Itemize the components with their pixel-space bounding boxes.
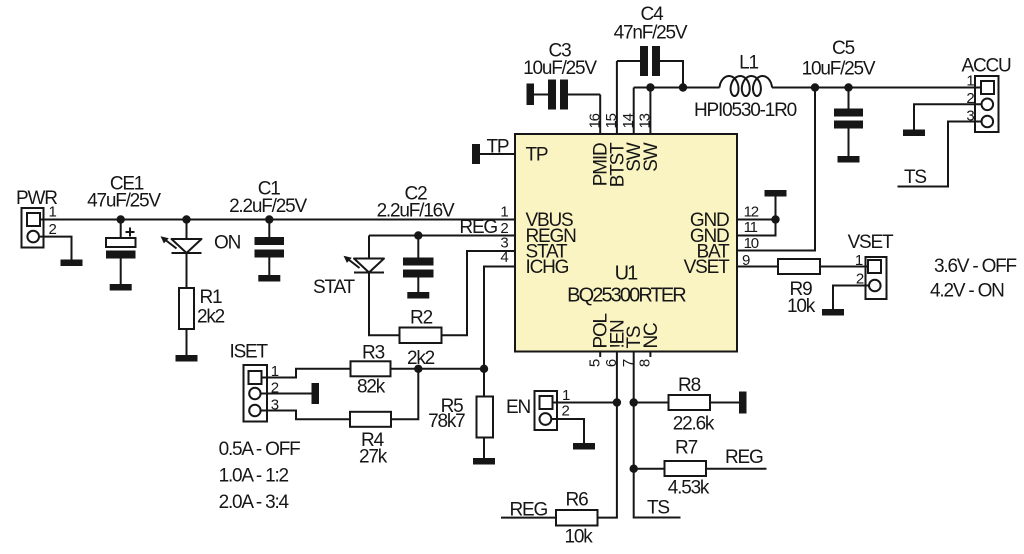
svg-text:4: 4 xyxy=(500,249,508,266)
termination bar at R8 xyxy=(739,392,747,414)
pin name PMID inside U1 xyxy=(591,143,612,186)
wire U1 pin 5 stub (POL) xyxy=(599,352,601,358)
resistor R7 4.53k xyxy=(634,437,710,498)
svg-text:8: 8 xyxy=(637,359,654,367)
ground at R1 xyxy=(176,355,198,362)
wire U1 pin 11 (GND) xyxy=(737,197,776,236)
wire EN pin 1 to !EN net xyxy=(553,402,617,404)
wire SW rail to L1 xyxy=(634,87,720,89)
pin name VBUS inside U1 xyxy=(526,210,573,231)
wire U1 pin 8 stub (NC) xyxy=(649,352,651,358)
wire EN pin 2 to ground xyxy=(551,419,584,443)
pin number 15 xyxy=(603,113,620,128)
svg-text:REG: REG xyxy=(725,447,763,468)
wire U1 pin 9 (VSET) to R9 xyxy=(737,266,778,268)
text 3.6V - OFF xyxy=(934,256,1017,277)
ground at C5 xyxy=(838,156,860,163)
wire ACCU pin 3 to TS net xyxy=(898,122,982,187)
node C5 junction xyxy=(844,83,852,91)
ground at CE1 xyxy=(110,284,132,291)
resistor R4 27k xyxy=(350,412,391,468)
capacitor C1 2.2uF/25V xyxy=(229,179,307,276)
ground at EN pin 2 xyxy=(573,443,595,450)
svg-text:U1: U1 xyxy=(615,263,639,285)
svg-text:R2: R2 xyxy=(410,308,433,329)
svg-text:NC: NC xyxy=(641,323,662,349)
node CE1 junction on VBUS rail xyxy=(117,215,125,223)
wire VBUS rail from PWR-1 to U1 pin 1 (VBUS net) xyxy=(40,219,515,221)
svg-text:2.0A - 3:4: 2.0A - 3:4 xyxy=(219,492,290,513)
wire BAT riser to U1 pin 10 xyxy=(737,88,815,251)
pin name BAT inside U1 xyxy=(697,242,731,263)
wire U1 pin 4 (ICHG) to resistor node xyxy=(484,267,515,369)
inductor L1 HPI0530-1R0 xyxy=(694,53,797,122)
svg-text:BQ25300RTER: BQ25300RTER xyxy=(567,285,686,307)
test point TP termination bar xyxy=(472,144,480,164)
svg-text:1: 1 xyxy=(500,204,508,221)
svg-text:TS: TS xyxy=(647,498,669,519)
wire U1 pin 13 (SW) up to SW rail xyxy=(649,88,651,135)
node GND junction xyxy=(771,215,779,223)
svg-text:STAT: STAT xyxy=(313,277,356,298)
wire R5 to ground xyxy=(483,438,485,459)
wire L1 to ACCU pin 1 (BAT net) xyxy=(772,87,981,89)
svg-text:ICHG: ICHG xyxy=(526,257,569,278)
pin number 12 xyxy=(744,203,759,220)
pin name STAT inside U1 xyxy=(526,242,569,263)
pin number 9 xyxy=(742,252,750,269)
svg-text:10: 10 xyxy=(744,235,759,252)
svg-text:VSET: VSET xyxy=(684,257,730,278)
wire LED ON cathode to R1 xyxy=(186,253,188,288)
svg-text:TS: TS xyxy=(904,167,926,188)
net label TS (right) xyxy=(904,167,926,188)
svg-text:22.6k: 22.6k xyxy=(673,414,715,435)
svg-text:2: 2 xyxy=(49,221,57,238)
svg-text:R8: R8 xyxy=(678,375,701,396)
connector PWR (pin header) xyxy=(16,188,57,248)
wire R8 to termination xyxy=(710,402,739,404)
svg-text:10uF/25V: 10uF/25V xyxy=(802,59,876,80)
node ICHG/R5 junction xyxy=(480,365,488,373)
svg-text:10uF/25V: 10uF/25V xyxy=(523,58,597,79)
capacitor C5 10uF/25V xyxy=(802,38,876,156)
pin number 6 xyxy=(603,359,620,367)
resistor R5 78k7 xyxy=(428,369,493,438)
wire PWR pin 2 to ground xyxy=(40,237,72,260)
node C4 junction on SW rail xyxy=(679,83,687,91)
svg-text:10k: 10k xyxy=(564,527,593,548)
svg-text:R7: R7 xyxy=(675,437,698,458)
wire ISET pin 3 to R4 xyxy=(261,411,350,420)
text ISET option 1.0A xyxy=(219,466,289,487)
wire TP to U1 xyxy=(480,153,515,155)
svg-text:47uF/25V: 47uF/25V xyxy=(87,191,161,212)
svg-text:SW: SW xyxy=(641,142,662,171)
capacitor C3 10uF/25V xyxy=(523,41,600,110)
ground at PWR pin 2 xyxy=(61,260,83,267)
pin number 5 xyxy=(587,359,604,367)
svg-text:78k7: 78k7 xyxy=(428,411,465,432)
LED ON (power indicator) xyxy=(161,220,241,254)
svg-text:R3: R3 xyxy=(362,343,385,364)
capacitor C4 47nF/25V xyxy=(614,4,688,88)
net label TS (bottom) xyxy=(647,498,669,519)
ground at R5 xyxy=(473,458,495,465)
pin number 7 xyxy=(620,359,637,367)
pin name GND (12) inside U1 xyxy=(690,210,729,231)
text ISET option 0.5A xyxy=(219,439,301,460)
termination bar at ISET pin 2 xyxy=(312,383,320,404)
wire REGN net from U1 pin 2 to STAT LED xyxy=(369,235,515,237)
svg-text:27k: 27k xyxy=(359,447,388,468)
pin name SW (14) inside U1 xyxy=(624,142,645,171)
wire R7 to REG net xyxy=(706,468,767,470)
capacitor CE1 47uF/25V (polarized) xyxy=(87,174,161,285)
pin name NC inside U1 xyxy=(641,323,662,349)
svg-text:0.5A - OFF: 0.5A - OFF xyxy=(219,439,301,460)
pin number 4 xyxy=(500,249,508,266)
net label REG (left) with wire xyxy=(501,500,556,521)
text ISET option 2.0A xyxy=(219,492,290,513)
wire R2 to U1 pin 3 (STAT) xyxy=(442,251,516,335)
ground above GND pins xyxy=(765,190,787,197)
pin name TP inside U1 xyxy=(526,145,548,166)
wire U1 pin 15 (BTST) up to C4 xyxy=(616,61,618,134)
wire U1 pin 12 (GND) xyxy=(737,219,776,221)
svg-text:VSET: VSET xyxy=(848,232,894,253)
svg-text:R6: R6 xyxy=(566,490,589,511)
svg-text:L1: L1 xyxy=(739,53,758,74)
node pin13 junction on SW rail xyxy=(646,83,654,91)
ground at ACCU pin 2 xyxy=(903,130,925,137)
pin name POL inside U1 xyxy=(591,313,612,348)
pin name GND (11) inside U1 xyxy=(690,226,729,247)
svg-text:1: 1 xyxy=(855,252,863,269)
pin name ICHG inside U1 xyxy=(526,257,569,278)
pin number 8 xyxy=(637,359,654,367)
svg-text:4.2V - ON: 4.2V - ON xyxy=(930,281,1004,302)
node R8 junction on TS net xyxy=(630,398,638,406)
svg-text:ISET: ISET xyxy=(230,342,269,363)
svg-text:1.0A - 1:2: 1.0A - 1:2 xyxy=(219,466,289,487)
text TP label xyxy=(487,137,509,158)
svg-text:3.6V - OFF: 3.6V - OFF xyxy=(934,256,1017,277)
svg-text:11: 11 xyxy=(744,219,758,236)
pin number 14 xyxy=(620,113,637,128)
wire R4 to node xyxy=(391,369,418,420)
node ON-LED junction on VBUS rail xyxy=(182,215,190,223)
pin name SW (13) inside U1 xyxy=(641,142,662,171)
svg-text:2.2uF/16V: 2.2uF/16V xyxy=(377,201,455,222)
node C2 junction on REGN net xyxy=(414,231,422,239)
svg-text:82k: 82k xyxy=(357,376,386,397)
connector ISET (pin header) xyxy=(230,342,279,422)
node C1 junction on VBUS rail xyxy=(265,215,273,223)
wire U1 pin 16 (PMID) xyxy=(599,95,601,135)
svg-text:TP: TP xyxy=(526,145,548,166)
wire REGN to STAT LED anode xyxy=(368,236,370,259)
ground at VSET pin 2 xyxy=(822,309,844,316)
svg-text:10k: 10k xyxy=(787,296,816,317)
node R3/R4 junction xyxy=(414,365,422,373)
pin number 1 xyxy=(500,204,508,221)
svg-text:47nF/25V: 47nF/25V xyxy=(614,23,688,44)
wire ISET pin 2 to termination xyxy=(261,393,312,395)
svg-text:5: 5 xyxy=(587,359,604,367)
pin name !EN inside U1 xyxy=(607,320,628,349)
wire VSET pin 2 to ground xyxy=(833,286,869,310)
LED STAT (charge status) xyxy=(313,256,384,298)
pin name REGN inside U1 xyxy=(526,226,577,247)
svg-text:1: 1 xyxy=(966,73,974,90)
wire R1 to ground xyxy=(186,329,188,355)
connector EN (pin header) xyxy=(506,387,570,430)
wire U1 pin 14 (SW) up to SW rail xyxy=(633,88,635,135)
resistor R6 10k xyxy=(556,490,598,548)
op-amp U1 BQ25300RTER (charger IC body) xyxy=(515,134,737,352)
node EN junction on !EN net xyxy=(613,398,621,406)
svg-text:4.53k: 4.53k xyxy=(668,478,710,499)
svg-text:TP: TP xyxy=(487,137,509,158)
svg-text:HPI0530-1R0: HPI0530-1R0 xyxy=(694,100,797,121)
resistor R8 22.6k xyxy=(634,375,715,435)
pin name TS inside U1 xyxy=(624,326,645,348)
resistor R9 10k xyxy=(778,259,820,317)
wire U1 pin 6 (!EN) down to R6 xyxy=(598,352,617,518)
pin number 3 xyxy=(500,234,508,251)
resistor R1 2k2 xyxy=(179,287,225,329)
text 4.2V - ON xyxy=(930,281,1004,302)
pin number 2 with REG net label xyxy=(459,217,508,238)
resistor R2 2k2 xyxy=(400,308,442,370)
pin number 13 xyxy=(637,113,654,128)
svg-text:R1: R1 xyxy=(200,287,223,308)
pin name BTST inside U1 xyxy=(607,142,628,187)
pin number 11 xyxy=(744,219,758,236)
ground at C1 xyxy=(258,275,280,282)
wire R3 to node xyxy=(391,368,419,370)
svg-text:2.2uF/25V: 2.2uF/25V xyxy=(229,196,307,217)
pin name VSET inside U1 xyxy=(684,257,730,278)
svg-text:1: 1 xyxy=(49,204,57,221)
wire U1 pin 7 (TS) down to TS label xyxy=(634,352,681,518)
svg-text:C5: C5 xyxy=(832,38,855,59)
node R7 junction on TS net xyxy=(630,465,638,473)
svg-text:REG: REG xyxy=(459,217,497,238)
svg-text:2k2: 2k2 xyxy=(197,307,225,328)
connector ACCU (battery header) xyxy=(962,56,1012,133)
node BAT riser junction xyxy=(811,83,819,91)
wire ACCU pin 2 to ground xyxy=(914,104,982,129)
wire node to ICHG riser xyxy=(418,368,484,370)
capacitor C2 2.2uF/16V xyxy=(377,184,455,293)
wire STAT LED cathode to R2 xyxy=(369,273,400,336)
wire ISET pin 1 to R3 xyxy=(262,369,351,378)
svg-text:12: 12 xyxy=(744,203,759,220)
net label REG (right) xyxy=(725,447,763,468)
wire R9 to VSET pin 1 xyxy=(820,266,868,268)
svg-text:EN: EN xyxy=(506,397,530,418)
pin number 16 xyxy=(587,113,604,128)
ground at C2 xyxy=(407,292,429,299)
pin number 10 xyxy=(744,235,759,252)
resistor R3 82k xyxy=(351,343,391,398)
svg-text:2: 2 xyxy=(562,403,570,420)
svg-text:ON: ON xyxy=(214,233,241,254)
svg-text:1: 1 xyxy=(562,387,570,404)
connector VSET (pin header) xyxy=(848,232,894,299)
